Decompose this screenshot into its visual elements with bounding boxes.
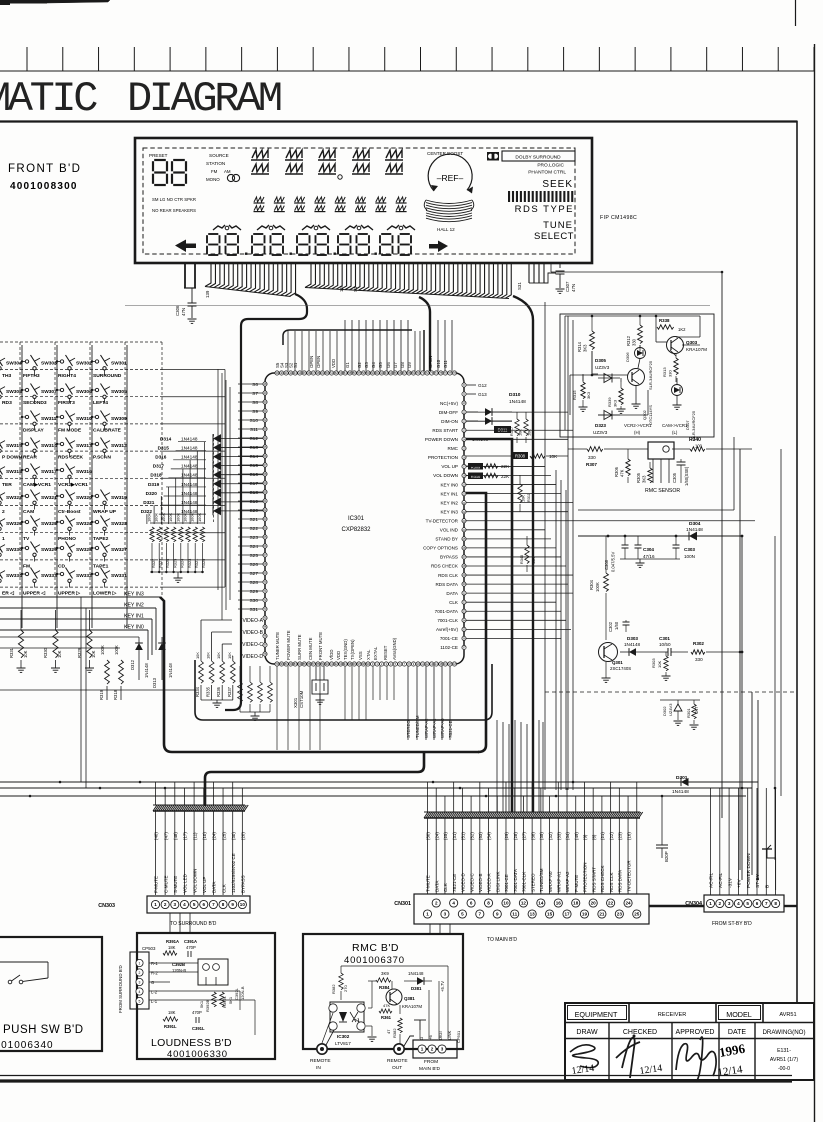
wire thick bus C (to CN301)	[513, 296, 533, 812]
medium bus under comb	[283, 330, 412, 345]
svg-text:1N4148: 1N4148	[624, 642, 641, 647]
switch SW323	[92, 521, 96, 523]
svg-text:D315: D315	[158, 446, 170, 451]
svg-text:100K: 100K	[100, 645, 105, 655]
svg-text:CXP82832: CXP82832	[341, 527, 371, 533]
svg-text:(47): (47)	[163, 832, 168, 840]
resistor R346 10K	[526, 536, 528, 545]
svg-text:1N4148: 1N4148	[408, 971, 424, 976]
svg-text:TEX(GND): TEX(GND)	[343, 639, 348, 660]
svg-text:UZ3V3: UZ3V3	[593, 430, 608, 435]
preset 7-seg digits 88	[154, 159, 166, 161]
svg-text:RDS CLK: RDS CLK	[609, 872, 614, 892]
svg-text:PROTECTION: PROTECTION	[583, 862, 588, 892]
switch SW310	[57, 416, 61, 418]
svg-text:24: 24	[625, 901, 631, 906]
svg-text:P.SCAN: P.SCAN	[93, 455, 111, 461]
table header cells row1	[628, 1003, 630, 1023]
svg-text:CAM: CAM	[23, 509, 34, 515]
svg-text:FM: FM	[211, 169, 218, 174]
svg-text:IC302: IC302	[337, 1034, 350, 1039]
wires IC bottom bundle to CN301	[496, 720, 498, 812]
svg-text:(48): (48)	[173, 832, 178, 840]
resistor R310 22K	[468, 473, 483, 480]
switch SW320	[57, 495, 61, 497]
resistor R308 10K	[512, 452, 528, 459]
svg-text:RDS START: RDS START	[591, 867, 596, 892]
svg-text:R382: R382	[392, 1028, 397, 1038]
IC left pin column	[263, 382, 267, 386]
svg-text:R313: R313	[662, 367, 667, 377]
svg-text:R304: R304	[589, 579, 594, 590]
svg-text:PUSH SW B'D: PUSH SW B'D	[3, 1024, 84, 1036]
switch SW317	[22, 469, 26, 471]
svg-text:47/16: 47/16	[643, 554, 655, 559]
svg-text:DIM-ON: DIM-ON	[441, 419, 458, 424]
svg-text:SW319: SW319	[111, 495, 127, 501]
svg-text:VOL DOWN: VOL DOWN	[433, 473, 458, 478]
svg-text:1: 1	[154, 902, 157, 907]
svg-text:R318: R318	[113, 689, 118, 700]
svg-text:6: 6	[202, 902, 205, 907]
svg-text:VDD: VDD	[331, 359, 336, 368]
svg-text:(52): (52)	[469, 832, 474, 840]
svg-text:100K: 100K	[175, 513, 180, 522]
connector CN303	[147, 896, 250, 913]
right pin stub wires	[466, 411, 568, 413]
svg-text:SW328: SW328	[76, 547, 92, 553]
svg-text:EXTAL: EXTAL	[373, 646, 378, 660]
switch SW312	[92, 443, 96, 445]
section wires top	[565, 315, 700, 317]
svg-text:SW329: SW329	[41, 547, 57, 553]
svg-text:(21): (21)	[600, 832, 605, 840]
switch SW314	[22, 443, 26, 445]
svg-text:7B21-CE: 7B21-CE	[452, 874, 457, 892]
svg-text:KRA107M: KRA107M	[402, 1004, 422, 1009]
svg-text:10K: 10K	[216, 652, 221, 659]
svg-text:TUNER MUTE: TUNER MUTE	[275, 632, 280, 660]
svg-text:SW303: SW303	[41, 361, 57, 367]
svg-text:2: 2	[719, 901, 722, 906]
small circle indicator	[338, 175, 342, 179]
svg-text:C306: C306	[175, 305, 180, 316]
hall coil arcs	[426, 200, 472, 204]
svg-text:CLK: CLK	[449, 600, 459, 605]
svg-text:5K1: 5K1	[199, 1000, 204, 1008]
title block table	[565, 1003, 814, 1080]
svg-text:100K: 100K	[114, 645, 119, 655]
svg-text:(30): (30)	[231, 832, 236, 840]
svg-text:100K: 100K	[197, 513, 202, 522]
svg-text:B20P: B20P	[664, 851, 669, 862]
svg-text:R391A: R391A	[166, 939, 179, 944]
svg-text:VDD: VDD	[336, 651, 341, 660]
svg-text:OUT: OUT	[392, 1065, 402, 1071]
display pin comb fan 1	[205, 264, 211, 287]
svg-text:RDS START: RDS START	[432, 428, 458, 433]
switch SW313	[57, 443, 61, 445]
svg-text:TV-DETECTOR: TV-DETECTOR	[626, 860, 631, 892]
board RMC outline	[303, 934, 463, 1049]
svg-text:D319: D319	[148, 482, 160, 487]
svg-text:(46): (46)	[154, 832, 159, 840]
right arrow glyph	[429, 241, 448, 253]
svg-text:100K: 100K	[154, 513, 159, 522]
svg-text:S10: S10	[249, 418, 258, 424]
svg-text:TUNED/SM: TUNED/SM	[539, 868, 544, 892]
svg-text:R312: R312	[626, 335, 631, 346]
svg-text:D323: D323	[595, 423, 606, 428]
svg-text:VIDEO-C: VIDEO-C	[242, 642, 263, 648]
svg-text:10K: 10K	[532, 557, 536, 564]
svg-text:3K3: 3K3	[642, 475, 647, 483]
svg-text:22K: 22K	[501, 474, 510, 479]
svg-text:1N4148: 1N4148	[181, 500, 198, 505]
svg-text:D320: D320	[146, 491, 158, 496]
svg-text:1G: 1G	[339, 286, 344, 292]
svg-text:270: 270	[343, 985, 348, 992]
svg-text:D304: D304	[689, 521, 701, 527]
svg-text:10/50: 10/50	[659, 642, 671, 647]
svg-text:SW323: SW323	[111, 521, 127, 527]
svg-text:3K3: 3K3	[613, 399, 618, 407]
svg-text:470P: 470P	[192, 1010, 202, 1015]
svg-text:18: 18	[573, 901, 579, 906]
svg-text:SLR-34URCF25: SLR-34URCF25	[648, 360, 653, 390]
resistor R309 22K	[468, 463, 483, 470]
svg-text:RIGHT4: RIGHT4	[58, 373, 76, 379]
svg-text:DATA: DATA	[434, 881, 439, 892]
svg-text:47K: 47K	[383, 1003, 390, 1008]
svg-text:22: 22	[608, 901, 614, 906]
svg-text:R301: R301	[686, 708, 691, 718]
svg-text:B: B	[765, 885, 771, 888]
svg-text:VOL IND: VOL IND	[440, 528, 459, 533]
svg-text:10K: 10K	[549, 454, 558, 459]
svg-text:2: 2	[139, 971, 141, 975]
vertical wire bundle left of IC	[221, 373, 223, 620]
svg-text:SW306: SW306	[76, 389, 92, 395]
svg-text:R320: R320	[201, 558, 206, 568]
svg-text:UZ3V3: UZ3V3	[595, 365, 610, 370]
svg-text:MONO: MONO	[206, 177, 220, 182]
svg-text:SW317: SW317	[41, 469, 57, 475]
display pin comb fan 2	[305, 264, 311, 288]
thick elbow to CN303	[205, 753, 424, 806]
svg-text:SW307: SW307	[41, 389, 57, 395]
frame right vertical	[796, 121, 798, 1004]
resistor R330 10K	[53, 630, 58, 658]
svg-text:330: 330	[632, 338, 637, 346]
medium bus under IC	[195, 660, 492, 720]
svg-text:DIAGRAM: DIAGRAM	[127, 75, 281, 123]
svg-text:3K3: 3K3	[586, 391, 591, 399]
svg-text:3: 3	[174, 902, 177, 907]
svg-text:SELECT: SELECT	[534, 231, 574, 242]
svg-text:D312: D312	[130, 659, 135, 670]
svg-text:Q303: Q303	[686, 340, 698, 345]
svg-text:10K: 10K	[91, 650, 96, 658]
svg-text:R324: R324	[180, 558, 185, 568]
lower-left junction wires	[0, 636, 139, 638]
svg-text:STATION: STATION	[206, 161, 225, 166]
svg-text:HALL 12: HALL 12	[437, 227, 455, 232]
svg-text:CHECKED: CHECKED	[623, 1029, 657, 1036]
svg-text:E131-: E131-	[777, 1048, 791, 1054]
svg-text:7001-DATA: 7001-DATA	[513, 869, 518, 892]
svg-text:RMC: RMC	[448, 446, 459, 451]
svg-text:+5.7V: +5.7V	[440, 981, 445, 992]
svg-text:DRAW: DRAW	[576, 1029, 598, 1036]
resistor R301 4K7	[693, 700, 695, 704]
svg-text:7001-DATA: 7001-DATA	[435, 609, 459, 614]
svg-text:D318: D318	[150, 473, 162, 478]
svg-text:VCR2▶VCR1: VCR2▶VCR1	[58, 482, 88, 488]
svg-text:R336: R336	[216, 686, 221, 697]
svg-text:10K: 10K	[206, 652, 211, 659]
switch SW303	[22, 361, 26, 363]
svg-text:18K: 18K	[168, 1010, 176, 1015]
svg-text:RDS CHECK: RDS CHECK	[431, 564, 459, 569]
svg-text:1: 1	[2, 536, 5, 542]
svg-text:IC301: IC301	[348, 516, 365, 522]
FIP display module outline	[135, 138, 592, 263]
opto coupler IC302 LTV817	[330, 1002, 364, 1032]
svg-text:VfOD: VfOD	[329, 649, 334, 660]
table row2 headers	[608, 1023, 610, 1081]
svg-text:-31V: -31V	[727, 877, 733, 888]
page border right	[814, 44, 816, 1122]
svg-text:XTAL: XTAL	[366, 649, 371, 660]
op-chip IC301 CXP82832 body	[265, 373, 464, 664]
svg-text:(38): (38)	[530, 832, 535, 840]
svg-text:330: 330	[668, 370, 673, 377]
svg-text:R302: R302	[693, 641, 704, 646]
switch SW302	[57, 361, 61, 363]
svg-text:1K2: 1K2	[678, 327, 686, 332]
svg-text:SW313: SW313	[76, 443, 92, 449]
LED D306	[635, 348, 646, 359]
svg-text:FIFTH3: FIFTH3	[23, 373, 40, 379]
switch matrix dashed grid	[0, 369, 162, 371]
svg-text:19: 19	[582, 912, 588, 917]
junction dots	[204, 781, 207, 784]
resistor R329 10K	[87, 630, 92, 658]
svg-text:(10): (10)	[202, 832, 207, 840]
title underline / frame top	[0, 120, 798, 122]
svg-text:CN301: CN301	[394, 901, 411, 907]
svg-text:1N4148: 1N4148	[181, 464, 198, 469]
svg-text:CAM->VCR1: CAM->VCR1	[662, 423, 688, 428]
svg-text:3: 3	[441, 1047, 444, 1052]
svg-text:R303: R303	[651, 658, 656, 668]
svg-text:PHONO: PHONO	[58, 536, 76, 542]
zener D323 UZ3V3	[598, 414, 620, 416]
svg-text:SW333: SW333	[41, 573, 57, 579]
svg-text:POWER DOWN: POWER DOWN	[425, 437, 458, 442]
svg-text:S1: S1	[353, 286, 358, 292]
svg-text:SW309: SW309	[111, 416, 127, 422]
svg-text:2SC1740S: 2SC1740S	[610, 666, 631, 671]
wire thick bus A (fan1 exit)	[225, 294, 307, 710]
svg-text:WRAP UP: WRAP UP	[93, 509, 117, 515]
svg-text:Avref(+5V): Avref(+5V)	[436, 627, 458, 632]
svg-text:PRO.LOGIC: PRO.LOGIC	[537, 163, 564, 169]
svg-text:R311: R311	[527, 493, 531, 502]
svg-text:VIDEO-A: VIDEO-A	[487, 873, 492, 892]
svg-text:SECOND3: SECOND3	[23, 400, 47, 406]
svg-text:TO SURROUND B'D: TO SURROUND B'D	[170, 921, 217, 927]
svg-text:PROTECTION: PROTECTION	[428, 455, 458, 460]
svg-text:10: 10	[240, 902, 246, 907]
svg-text:(23): (23)	[618, 832, 623, 840]
svg-text:4: 4	[737, 901, 740, 906]
jack REMOTE IN	[317, 1044, 327, 1054]
svg-text:(24): (24)	[212, 832, 217, 840]
switch SW316	[57, 469, 61, 471]
svg-text:COPY OPTIONS: COPY OPTIONS	[423, 546, 458, 551]
svg-text:R338: R338	[659, 318, 670, 323]
long horizontal bus wires	[0, 781, 758, 783]
capacitor C304 47/16	[637, 536, 639, 545]
resistor R331 10K	[18, 630, 23, 658]
svg-text:8: 8	[487, 901, 490, 906]
svg-text:6: 6	[756, 901, 759, 906]
svg-text:100K: 100K	[183, 513, 188, 522]
svg-text:3: 3	[728, 901, 731, 906]
switch SW319	[92, 495, 96, 497]
svg-text:KEY IN1: KEY IN1	[440, 491, 458, 496]
svg-text:SW321: SW321	[41, 495, 57, 501]
svg-text:R331: R331	[9, 647, 14, 658]
svg-text:1N4148: 1N4148	[144, 663, 149, 678]
resistor R311 10K	[519, 475, 521, 484]
svg-text:S29: S29	[249, 589, 258, 595]
right vertical bus wires	[544, 302, 546, 790]
svg-text:POWER DOWN: POWER DOWN	[746, 853, 752, 888]
signature approved	[676, 1037, 716, 1082]
svg-text:S11: S11	[250, 427, 259, 433]
svg-text:VIDEO-D: VIDEO-D	[461, 872, 466, 892]
svg-text:47: 47	[386, 1029, 391, 1034]
svg-text:CST10M: CST10M	[299, 690, 304, 708]
svg-text:C305: C305	[672, 472, 677, 483]
switch matrix column bus wires	[21, 345, 23, 628]
switch SW301	[92, 361, 96, 363]
svg-text:D321: D321	[143, 500, 155, 505]
svg-text:7: 7	[212, 902, 215, 907]
svg-text:10K: 10K	[57, 650, 62, 658]
svg-text:1: 1	[709, 901, 712, 906]
svg-text:1: 1	[421, 1047, 424, 1052]
svg-text:Ctr-Boost: Ctr-Boost	[58, 509, 81, 515]
svg-text:EQUIPMENT: EQUIPMENT	[575, 1010, 618, 1019]
svg-text:10K: 10K	[522, 495, 526, 502]
svg-text:SW318: SW318	[6, 469, 22, 475]
svg-text:F-MUTE: F-MUTE	[154, 876, 159, 893]
svg-text:1/50: 1/50	[614, 621, 619, 630]
svg-text:LOWER ▷: LOWER ▷	[93, 591, 118, 597]
svg-text:RDS SEEK: RDS SEEK	[58, 455, 83, 461]
svg-text:R392B: R392B	[205, 999, 210, 1012]
RMC internal wires	[322, 1013, 333, 1043]
svg-text:ER ◁: ER ◁	[2, 591, 14, 597]
svg-text:DRAWING(NO): DRAWING(NO)	[762, 1029, 805, 1036]
connector CN304	[704, 895, 784, 912]
svg-text:7001-CLK: 7001-CLK	[437, 618, 459, 623]
connector CN301 fan bar	[424, 812, 428, 818]
svg-text:17: 17	[564, 912, 570, 917]
resistor R317 10K	[516, 412, 518, 419]
svg-text:SW326: SW326	[6, 521, 22, 527]
wires IC bottom to lower area	[344, 666, 346, 720]
svg-text:R340: R340	[689, 437, 701, 443]
svg-text:D305: D305	[595, 358, 606, 363]
svg-text:SW312: SW312	[111, 443, 127, 449]
connector CN303 fan bar	[153, 805, 157, 811]
svg-text:CLK: CLK	[221, 884, 226, 893]
svg-text:FROM: FROM	[424, 1059, 438, 1065]
svg-text:TV: TV	[23, 536, 30, 542]
svg-text:WRAP-A1: WRAP-A1	[557, 871, 562, 892]
svg-text:S23: S23	[249, 535, 258, 541]
svg-text:R330: R330	[43, 647, 48, 658]
pin G12	[466, 384, 476, 386]
svg-text:DATA: DATA	[446, 591, 459, 596]
svg-text:10: 10	[503, 901, 509, 906]
svg-text:R319: R319	[99, 689, 104, 700]
svg-text:FM: FM	[23, 563, 30, 569]
svg-text:8: 8	[222, 902, 225, 907]
svg-text:RDS CHECK: RDS CHECK	[600, 865, 605, 892]
transistor Q303 KRA107M	[667, 337, 684, 354]
svg-text:D306: D306	[625, 352, 630, 362]
film edge mark top-left	[0, 0, 47, 4]
matrix row output wires	[162, 369, 225, 371]
svg-text:G9: G9	[407, 362, 412, 368]
svg-text:S7: S7	[252, 391, 258, 397]
svg-text:DIM-OFF: DIM-OFF	[439, 410, 458, 415]
svg-text:SURROUND: SURROUND	[93, 373, 122, 379]
svg-text:S30: S30	[249, 598, 258, 604]
svg-text:SW315: SW315	[6, 443, 22, 449]
svg-text:(9): (9)	[583, 834, 588, 840]
svg-text:S1: S1	[293, 362, 298, 368]
svg-text:CN303: CN303	[98, 903, 115, 909]
svg-text:AC-FIL: AC-FIL	[718, 872, 724, 888]
svg-text:SM LG NO CTR SPKR: SM LG NO CTR SPKR	[152, 197, 196, 202]
svg-text:R391L: R391L	[164, 1024, 177, 1029]
svg-text:7001-CE: 7001-CE	[440, 636, 458, 641]
svg-text:(25): (25)	[443, 832, 448, 840]
transistor Q302 DTC114YS	[628, 369, 645, 386]
transistor Q381 KRA107M	[386, 989, 402, 1005]
svg-text:D314: D314	[160, 437, 172, 442]
CN301 wires and labels	[427, 818, 429, 894]
svg-text:VIDEO-B: VIDEO-B	[478, 873, 483, 892]
switch SW311	[22, 416, 26, 418]
svg-text:R317: R317	[510, 427, 514, 436]
RMC sensor package	[648, 442, 674, 459]
svg-text:(22): (22)	[609, 832, 614, 840]
svg-text:AC-FIL: AC-FIL	[709, 872, 715, 888]
svg-text:330: 330	[588, 455, 596, 460]
resistor R307 330	[587, 447, 603, 452]
svg-text:MAIN B'D: MAIN B'D	[419, 1066, 440, 1072]
svg-text:MODEL: MODEL	[726, 1010, 752, 1019]
svg-text:5: 5	[193, 902, 196, 907]
